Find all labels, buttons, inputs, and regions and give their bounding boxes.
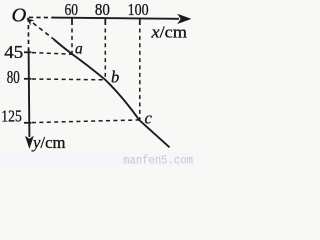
svg-text:80: 80: [7, 67, 20, 87]
x-axis dashed start segment: [29, 16, 53, 18]
svg-text:manfen5.com: manfen5.com: [123, 154, 193, 167]
x-axis solid line: [52, 18, 179, 19]
dashed diagonal from origin to curve: [33, 23, 55, 40]
dashed drop line x=100: [139, 29, 141, 121]
dashed level line y=125: [32, 120, 140, 123]
y tick 125: [24, 122, 32, 124]
y-axis dashed start segment: [27, 18, 29, 50]
small arrowhead near origin on diagonal: [27, 18, 35, 25]
svg-text:a: a: [75, 40, 83, 57]
svg-text:45: 45: [4, 42, 23, 62]
svg-text:O: O: [12, 4, 27, 26]
bottom light strip: [0, 151, 194, 166]
svg-text:b: b: [111, 68, 119, 87]
solid curve through a b c: [54, 40, 170, 148]
y tick 45: [24, 51, 32, 53]
y tick 80: [24, 78, 32, 80]
dashed drop line x=80: [104, 29, 106, 80]
x tick 80: [104, 18, 106, 25]
svg-text:125: 125: [1, 106, 22, 125]
x tick 100: [139, 18, 141, 25]
svg-text:100: 100: [128, 0, 149, 19]
svg-text:c: c: [145, 108, 153, 127]
dashed level line y=45: [32, 53, 72, 55]
graph: spring length y vs position x chart: [0, 0, 194, 166]
svg-text:60: 60: [65, 0, 79, 19]
svg-text:y/cm: y/cm: [31, 133, 66, 152]
y-axis arrowhead: [25, 136, 34, 149]
x-axis arrowhead: [177, 14, 191, 24]
svg-text:80: 80: [95, 0, 110, 19]
dashed level line y=80: [32, 78, 105, 81]
x tick 60: [71, 18, 73, 25]
y-axis solid line: [28, 49, 31, 137]
dashed drop line x=60: [71, 29, 73, 54]
svg-text:x/cm: x/cm: [150, 23, 187, 42]
